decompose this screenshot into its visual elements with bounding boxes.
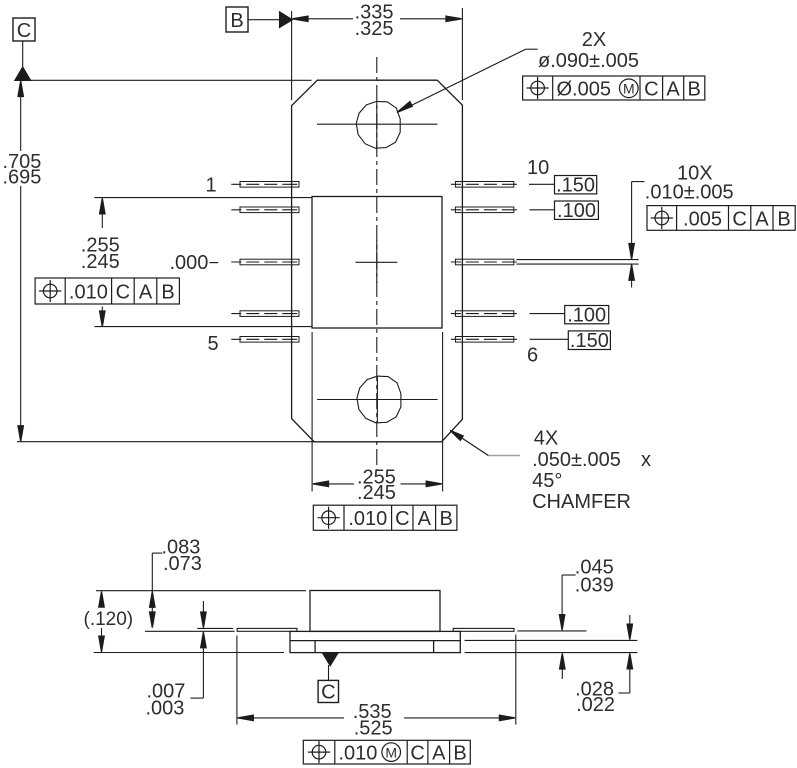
pin 9 (right, y=209.8): [451, 207, 523, 213]
inner cavity rectangle: [312, 197, 442, 329]
svg-text:1: 1: [206, 175, 217, 197]
svg-text:A: A: [418, 508, 432, 530]
cap top extension line: [96, 590, 306, 592]
4X chamfer leader: [488, 455, 520, 457]
dimension .028/.022: [619, 615, 633, 693]
dimension .335/.325 (top overall): [292, 8, 463, 100]
svg-text:5: 5: [208, 333, 219, 355]
svg-text:Ø.005: Ø.005: [557, 79, 611, 101]
svg-text:CHAMFER: CHAMFER: [532, 491, 631, 513]
FCF top (2X holes): [523, 76, 705, 100]
svg-text:C: C: [321, 682, 335, 704]
center cross: [356, 261, 398, 263]
dimension .705/.695 (left overall): [18, 81, 23, 442]
package outline: [292, 80, 463, 442]
svg-text:C: C: [644, 78, 658, 100]
svg-text:.325: .325: [355, 18, 394, 40]
left lead bottom extension: [145, 630, 235, 632]
pin 6 (right, y=339.3): [451, 337, 523, 343]
boxed basic dim .150 (pin 10): [529, 176, 597, 194]
dimension .007/.003: [190, 601, 206, 698]
svg-text:.050±.005: .050±.005: [532, 449, 621, 471]
datum C symbol (side view): [318, 653, 338, 703]
bottom seating extension (left): [94, 652, 284, 654]
right mid extension: [465, 639, 638, 641]
body divider line: [290, 640, 460, 642]
pin 4 (left, y=313.6): [231, 311, 303, 317]
body lower inner verticals: [314, 641, 316, 653]
svg-text:.100: .100: [567, 305, 606, 327]
dimension .045/.039: [559, 575, 575, 679]
svg-text:.039: .039: [575, 575, 614, 597]
dimension (.120): [99, 592, 104, 652]
svg-text:B: B: [440, 508, 453, 530]
pin 7 (right, y=313.6): [451, 311, 523, 317]
svg-text:.022: .022: [576, 694, 615, 716]
svg-text:C: C: [395, 508, 409, 530]
svg-text:.245: .245: [357, 482, 396, 504]
svg-text:.010: .010: [339, 742, 378, 764]
svg-text:.010: .010: [69, 281, 108, 303]
datum C symbol (top view): [13, 18, 35, 80]
FCF side view (.010 M C A B): [303, 740, 470, 764]
svg-text:B: B: [161, 281, 174, 303]
svg-text:B: B: [777, 208, 790, 230]
FCF bottom of top view (.010 C A B): [313, 505, 457, 530]
svg-text:A: A: [666, 78, 680, 100]
FCF left (.010 C A B): [35, 278, 179, 304]
svg-text:45°: 45°: [532, 470, 562, 492]
boxed basic dim .100 (pin 7): [530, 306, 609, 324]
svg-text:.150: .150: [570, 330, 609, 352]
svg-text:.100: .100: [557, 200, 596, 222]
bottom mounting hole: [357, 376, 401, 423]
svg-text:.010: .010: [348, 508, 387, 530]
pin 5 (left, y=339.3): [231, 337, 303, 343]
bottom edge extension line (for .705): [17, 441, 314, 443]
datum B symbol: [226, 7, 292, 32]
cap (lid): [310, 591, 440, 632]
svg-text:10: 10: [527, 157, 549, 179]
dimension .255/.245 (bottom, cavity width): [312, 332, 443, 491]
2X hole leader: [397, 49, 538, 112]
boxed basic dim .100 (pin 9): [530, 201, 599, 219]
.000 dash to pin 3: [210, 262, 219, 264]
pin 1 (left, y=184.3): [231, 182, 303, 188]
svg-text:6: 6: [527, 345, 538, 367]
svg-text:x: x: [641, 449, 651, 471]
svg-text:.695: .695: [3, 166, 42, 188]
svg-text:C: C: [732, 208, 746, 230]
top hole horizontal centerline: [317, 123, 438, 125]
svg-text:.525: .525: [354, 717, 393, 739]
pin 10 (right, y=184.3): [451, 182, 523, 188]
svg-text:.073: .073: [163, 553, 202, 575]
svg-text:.010±.005: .010±.005: [645, 181, 734, 203]
body flange: [290, 631, 460, 652]
pin 2 (left, y=209.8): [231, 207, 303, 213]
svg-text:A: A: [139, 281, 153, 303]
right lead bottom extension: [517, 630, 586, 632]
boxed basic dim .150 (pin 6): [530, 331, 611, 350]
hole cross verticals: [376, 102, 378, 149]
svg-text:.150: .150: [556, 175, 595, 197]
pin 8 (right, y=262): [451, 259, 523, 265]
top mounting hole: [356, 101, 400, 148]
vertical centerline: [376, 57, 378, 470]
svg-text:.005: .005: [683, 208, 722, 230]
datum C target line (top edge extension): [23, 79, 312, 81]
svg-text:2X: 2X: [582, 29, 606, 51]
svg-text:(.120): (.120): [84, 609, 134, 630]
FCF right (10X leads): [647, 206, 795, 231]
svg-text:4X: 4X: [534, 428, 558, 450]
svg-text:C: C: [410, 742, 424, 764]
svg-text:A: A: [432, 742, 446, 764]
svg-text:M: M: [623, 80, 635, 96]
pin 3 (left, y=262): [231, 259, 303, 265]
right bottom extension: [465, 652, 638, 654]
bottom hole horizontal centerline: [317, 399, 438, 401]
svg-text:C: C: [17, 20, 31, 42]
svg-text:.003: .003: [146, 697, 185, 719]
svg-text:ø.090±.005: ø.090±.005: [538, 50, 639, 72]
svg-text:M: M: [385, 744, 397, 760]
svg-text:B: B: [230, 10, 243, 32]
svg-text:.000: .000: [170, 252, 209, 274]
dimension .255/.245 (left, lead rows): [94, 198, 311, 327]
svg-text:B: B: [688, 78, 701, 100]
svg-text:A: A: [755, 208, 769, 230]
dimension .535/.525: [237, 635, 516, 725]
left lead (side view): [237, 628, 297, 631]
left lead top extension: [197, 627, 233, 629]
svg-text:C: C: [116, 281, 130, 303]
dimension .083/.073: [150, 553, 163, 628]
svg-text:.245: .245: [81, 251, 120, 273]
10X lead thickness dim arrows: [629, 182, 645, 288]
right lead (side view): [453, 628, 514, 631]
pin 8 lead extension lines for 10X dim: [517, 259, 639, 261]
svg-text:B: B: [453, 742, 466, 764]
